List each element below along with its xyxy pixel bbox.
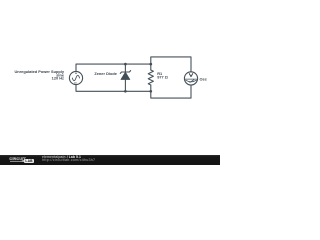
zener diode D1 <box>120 71 130 80</box>
watermark text: user / Lab 5.1 <box>42 155 81 159</box>
wire oscilloscope loop top <box>151 57 191 72</box>
wire R1 top stub <box>150 64 152 70</box>
junction node R1 top <box>149 63 152 66</box>
watermark logo CIRCUIT <box>9 156 25 161</box>
svg-text:Osc: Osc <box>200 76 208 81</box>
junction node R1 bottom <box>149 90 152 93</box>
watermark logo arrow <box>21 160 24 162</box>
junction node D (zener bottom) <box>124 90 127 93</box>
watermark url <box>42 158 95 162</box>
wire R1 bottom stub <box>150 85 152 91</box>
wire oscilloscope loop bottom <box>151 85 191 98</box>
wire zener branch <box>124 64 126 91</box>
junction node B (zener top) <box>124 63 127 66</box>
watermark logo LAB badge <box>24 159 34 163</box>
resistor R1 <box>148 70 153 85</box>
svg-text:977 Ω: 977 Ω <box>157 75 168 80</box>
wire bottom rail from source V1 to node D <box>76 85 151 92</box>
voltmeter letter V <box>189 74 192 77</box>
svg-text:Zener Diode: Zener Diode <box>94 71 117 76</box>
svg-text:120 Hz: 120 Hz <box>52 75 64 80</box>
watermark logo wire line <box>10 160 23 163</box>
watermark bar <box>0 155 220 165</box>
voltage source V1 (sine) <box>69 71 82 84</box>
wire top rail from source V1 to node B <box>76 64 151 71</box>
voltmeter Osc <box>184 72 197 85</box>
